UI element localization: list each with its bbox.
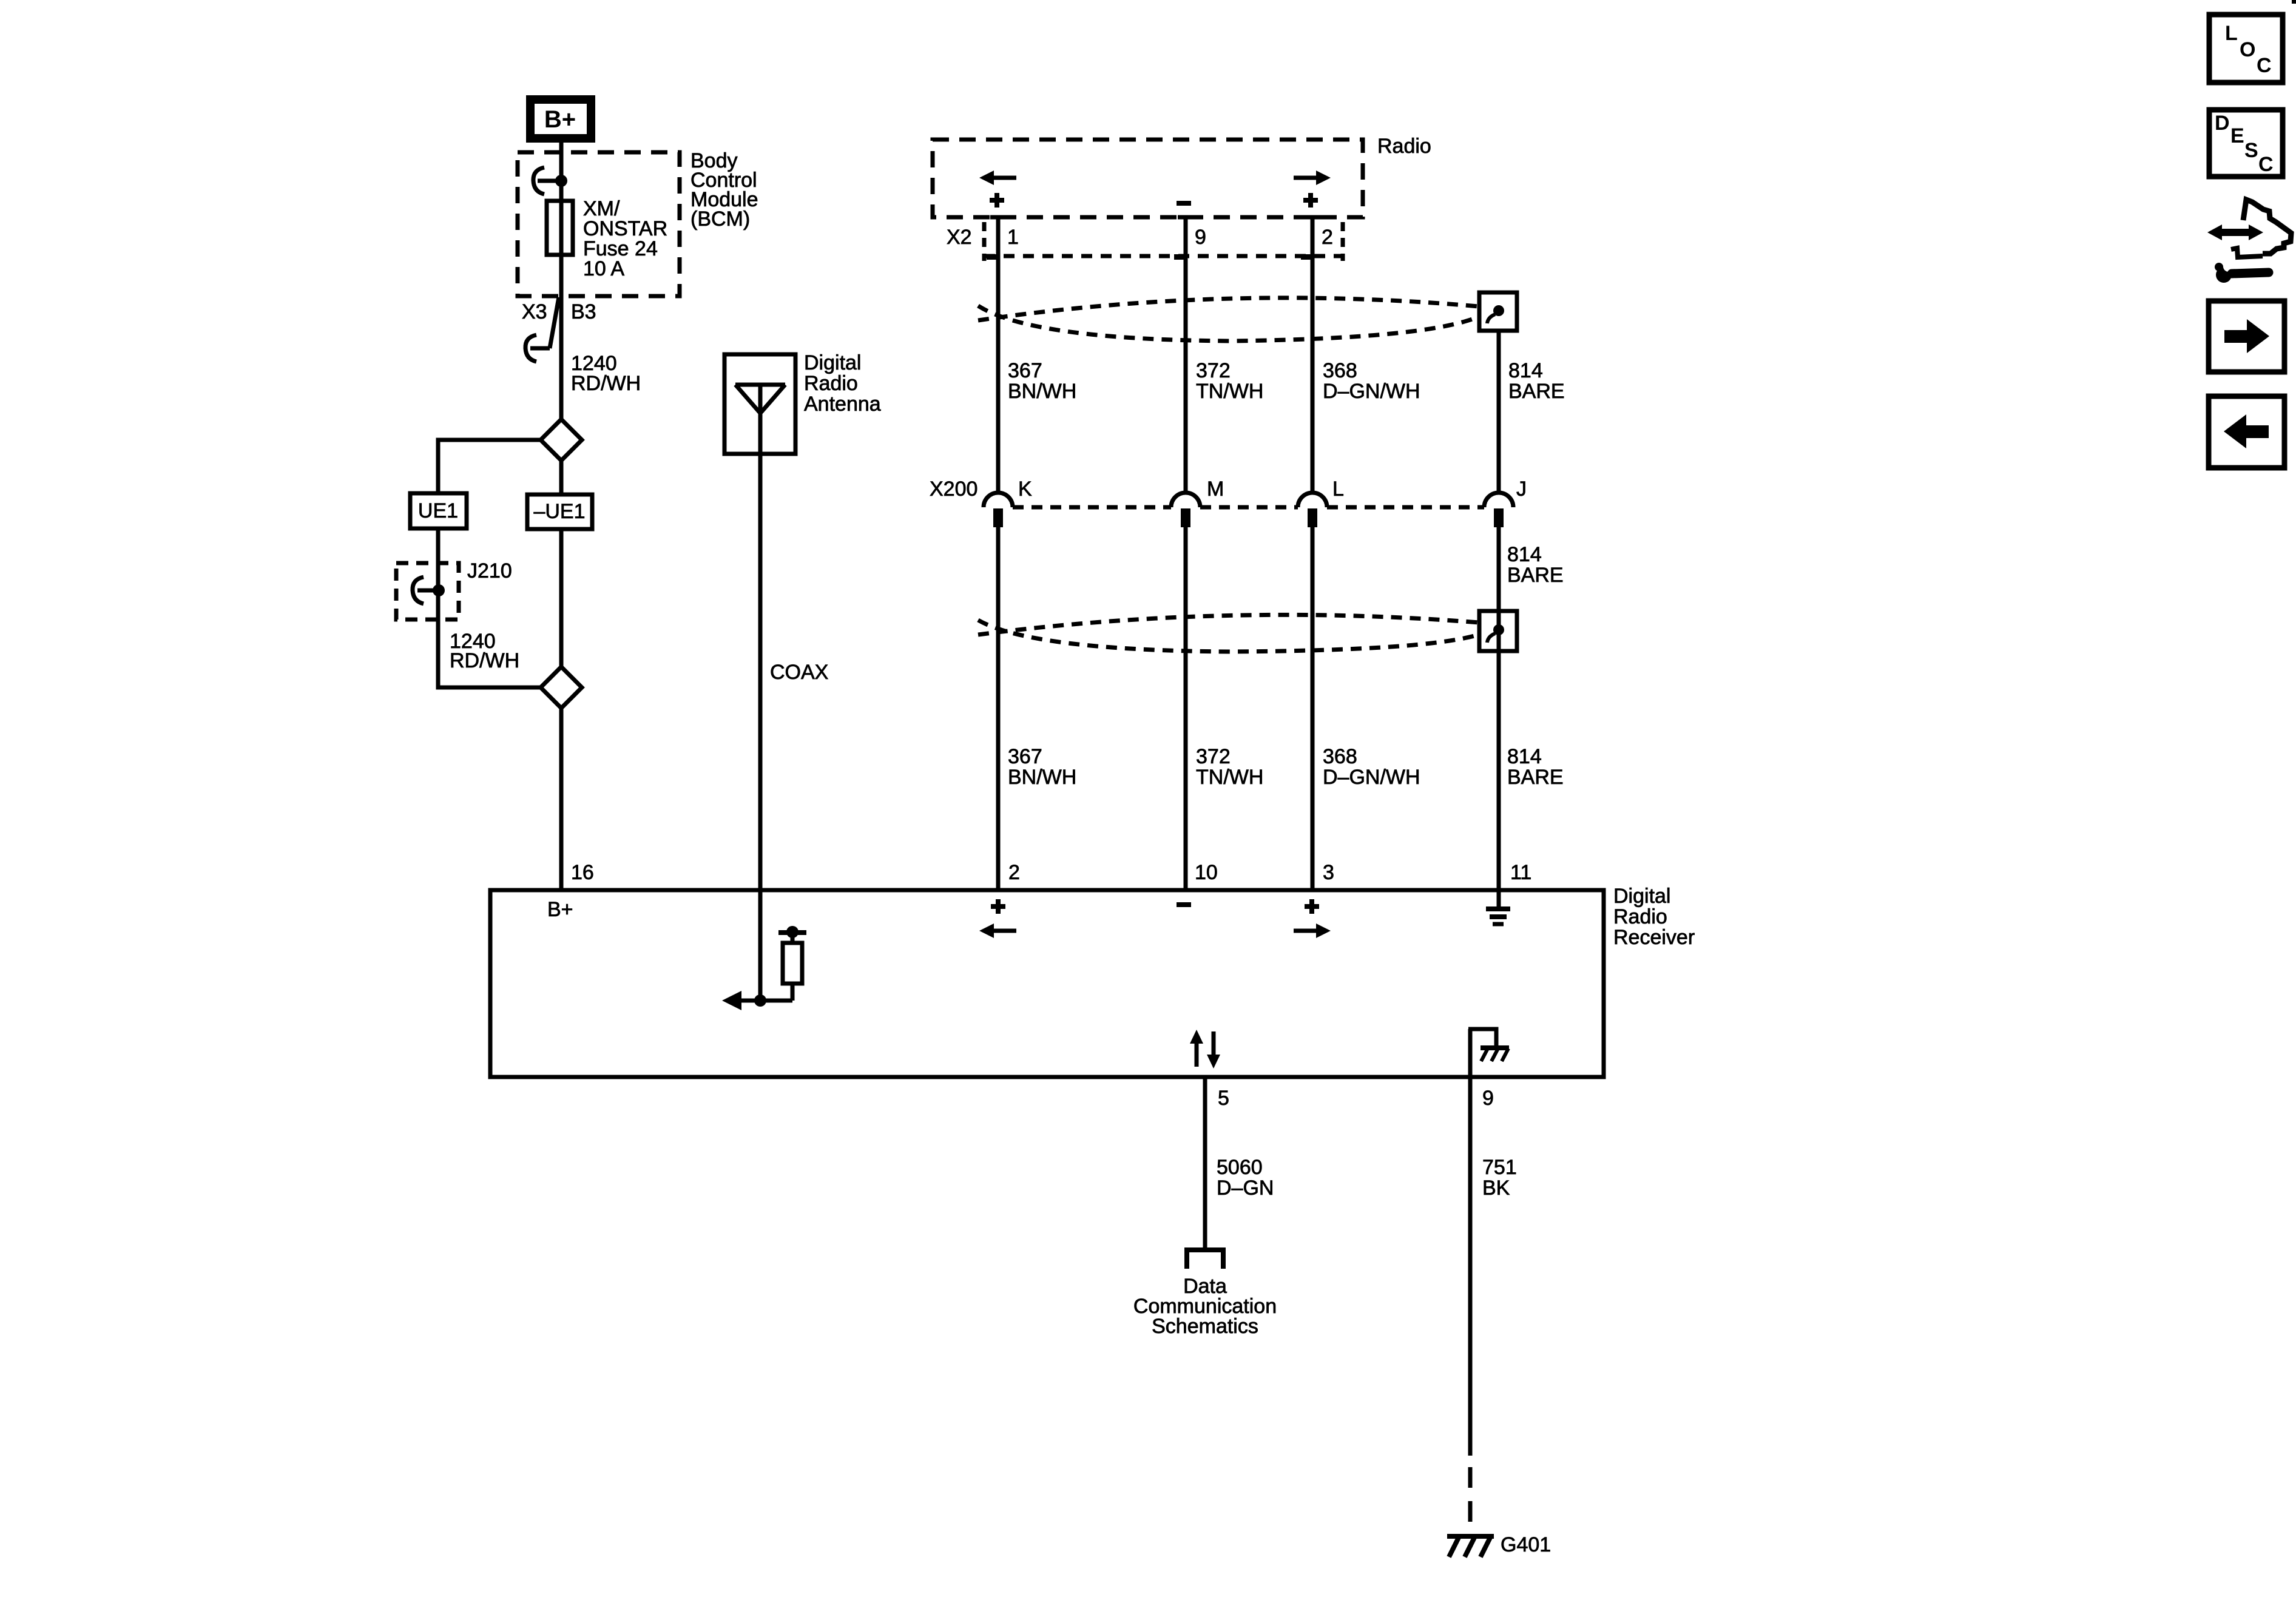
wire UE1 down through J210 xyxy=(438,528,541,687)
shield terminator box (upper) xyxy=(1479,292,1517,331)
-UE1 terminal box xyxy=(527,495,592,529)
svg-text:K: K xyxy=(1018,478,1032,501)
X2 pin 2 label xyxy=(1322,226,1333,249)
B+ label xyxy=(544,106,576,133)
receiver plus (pin 2) xyxy=(991,899,1005,914)
svg-text:10 A: 10 A xyxy=(583,257,624,280)
sidebar vehicle harness icon xyxy=(2207,200,2291,257)
shield loop (upper) xyxy=(978,298,1479,341)
wire label 372 TN/WH (upper) xyxy=(1196,359,1263,403)
X200 pin L label xyxy=(1332,478,1344,501)
svg-text:1: 1 xyxy=(1007,226,1019,249)
svg-text:814: 814 xyxy=(1507,745,1542,768)
svg-text:G401: G401 xyxy=(1501,1533,1551,1556)
junction node in BCM xyxy=(555,175,567,187)
wire 372 lower segment xyxy=(1184,527,1188,890)
X2 pin ticks xyxy=(987,254,1311,260)
Digital Radio Antenna box xyxy=(724,354,795,454)
receiver pin 10 label xyxy=(1195,861,1218,884)
svg-text:M: M xyxy=(1207,478,1224,501)
splice diamond (upper) xyxy=(541,419,582,461)
receiver pin 2 label xyxy=(1008,861,1020,884)
svg-text:367: 367 xyxy=(1008,359,1042,382)
receiver data up/down arrows (pin 5) xyxy=(1190,1030,1220,1068)
receiver right arrow (pin 3) xyxy=(1294,923,1331,938)
radio minus sign xyxy=(1177,201,1191,206)
G401 label xyxy=(1501,1533,1551,1556)
drain wire 814 lower segment xyxy=(1497,527,1501,890)
svg-text:L: L xyxy=(2225,22,2238,45)
wire -UE1 down to splice diamond lower xyxy=(559,529,564,667)
X2 pin 1 label xyxy=(1007,226,1019,249)
svg-text:C: C xyxy=(2258,153,2274,176)
svg-text:TN/WH: TN/WH xyxy=(1196,380,1263,403)
svg-text:Radio: Radio xyxy=(1377,135,1431,158)
svg-text:X200: X200 xyxy=(930,478,977,501)
svg-text:BARE: BARE xyxy=(1507,564,1564,587)
svg-text:D–GN: D–GN xyxy=(1217,1176,1274,1200)
Digital Radio Antenna label xyxy=(804,351,881,416)
X200 arc pin K xyxy=(984,493,1013,527)
svg-text:5060: 5060 xyxy=(1217,1156,1263,1179)
svg-text:372: 372 xyxy=(1196,359,1231,382)
wire label 1240 RD/WH (upper) xyxy=(571,352,641,395)
connector X200 label xyxy=(930,478,977,501)
sidebar LOC icon box xyxy=(2209,15,2283,83)
coax wire antenna to receiver xyxy=(758,454,763,890)
wire label 372 TN/WH (lower) xyxy=(1196,745,1263,789)
receiver coax internal wire xyxy=(722,890,792,1010)
wire 751 BK xyxy=(1468,1077,1473,1536)
X2 pin 9 label xyxy=(1195,226,1206,249)
svg-text:B+: B+ xyxy=(547,898,573,921)
wire label 367 BN/WH (lower) xyxy=(1008,745,1076,789)
svg-text:B3: B3 xyxy=(571,300,596,323)
connector X2 bracket xyxy=(984,222,1343,261)
svg-text:J: J xyxy=(1516,478,1527,501)
svg-text:751: 751 xyxy=(1482,1156,1517,1179)
X200 arc pin M xyxy=(1171,493,1200,527)
svg-text:Radio: Radio xyxy=(1613,905,1667,928)
-UE1 label xyxy=(533,500,585,523)
svg-text:3: 3 xyxy=(1323,861,1334,884)
sidebar DESC icon box xyxy=(2209,110,2283,177)
svg-text:X3: X3 xyxy=(522,300,547,323)
page corner mark xyxy=(2292,0,2296,4)
svg-text:Digital: Digital xyxy=(804,351,861,374)
svg-text:BN/WH: BN/WH xyxy=(1008,380,1076,403)
svg-text:–UE1: –UE1 xyxy=(533,500,585,523)
wire 367 lower segment xyxy=(996,527,1001,890)
Digital Radio Receiver label xyxy=(1613,885,1695,949)
receiver pin 16 label xyxy=(571,861,594,884)
X200 pin M label xyxy=(1207,478,1224,501)
svg-text:RD/WH: RD/WH xyxy=(571,372,641,395)
wire splice to UE1 branch xyxy=(438,440,541,493)
J210 splice pack dashed box xyxy=(396,563,459,619)
wire label 1240 RD/WH (lower) xyxy=(450,630,519,672)
B+ power symbol box xyxy=(530,100,591,138)
svg-text:S: S xyxy=(2244,139,2258,162)
svg-text:D: D xyxy=(2215,112,2230,135)
wire label 367 BN/WH (upper) xyxy=(1008,359,1076,403)
svg-text:Radio: Radio xyxy=(804,372,858,395)
shield loop (lower) xyxy=(978,615,1479,652)
radio plus sign (left) xyxy=(990,193,1004,208)
wire label 814 BARE (upper) xyxy=(1508,359,1565,403)
svg-text:UE1: UE1 xyxy=(418,499,458,522)
receiver plus (pin 3) xyxy=(1305,899,1319,914)
wire label 5060 D-GN xyxy=(1217,1156,1274,1200)
receiver minus (pin 10) xyxy=(1177,902,1191,907)
svg-text:Receiver: Receiver xyxy=(1613,926,1695,949)
J210 connector hook and node xyxy=(413,577,445,604)
sidebar back arrow box xyxy=(2209,396,2284,468)
wire 1240 RD/WH from X3 to splice xyxy=(559,296,564,419)
receiver pin 9 label xyxy=(1482,1087,1494,1110)
X2 label xyxy=(947,226,972,249)
sidebar next arrow box xyxy=(2209,301,2284,372)
B3 label xyxy=(571,300,596,323)
receiver B+ label xyxy=(547,898,573,921)
svg-text:814: 814 xyxy=(1507,543,1542,566)
svg-text:9: 9 xyxy=(1482,1087,1494,1110)
wire label 814 BARE (lower) xyxy=(1507,745,1564,789)
radio plus sign (right) xyxy=(1303,193,1318,208)
UE1 fuse block terminal box xyxy=(410,493,467,528)
wire label 751 BK xyxy=(1482,1156,1517,1200)
X200 pin K label xyxy=(1018,478,1032,501)
svg-text:D–GN/WH: D–GN/WH xyxy=(1323,380,1420,403)
svg-text:2: 2 xyxy=(1008,861,1020,884)
COAX label xyxy=(770,661,828,684)
svg-text:BARE: BARE xyxy=(1508,380,1565,403)
svg-text:J210: J210 xyxy=(467,559,512,582)
svg-text:11: 11 xyxy=(1510,861,1531,884)
receiver pin 3 label xyxy=(1323,861,1334,884)
svg-text:L: L xyxy=(1332,478,1344,501)
X200 pin J label xyxy=(1516,478,1527,501)
wire B+ to BCM fuse to X3 xyxy=(559,138,564,296)
receiver pin 11 label xyxy=(1510,861,1531,884)
svg-text:D–GN/WH: D–GN/WH xyxy=(1323,766,1420,789)
wire splice to receiver pin 16 xyxy=(559,708,564,890)
svg-text:9: 9 xyxy=(1195,226,1206,249)
BCM internal connector hook xyxy=(533,167,559,194)
svg-text:367: 367 xyxy=(1008,745,1042,768)
ground G401 xyxy=(1447,1536,1494,1557)
svg-text:(BCM): (BCM) xyxy=(690,208,750,231)
off-page connector to data schematics xyxy=(1184,1250,1226,1269)
svg-text:BN/WH: BN/WH xyxy=(1008,766,1076,789)
wire label 814 BARE (middle) xyxy=(1507,543,1564,587)
fuse value label xyxy=(583,197,667,280)
sidebar wrench icon xyxy=(2215,261,2269,283)
svg-text:X2: X2 xyxy=(947,226,972,249)
wire 5060 D-GN xyxy=(1203,1077,1207,1248)
J210 label xyxy=(467,559,512,582)
shield terminator box (lower) xyxy=(1479,611,1517,651)
svg-text:16: 16 xyxy=(571,861,594,884)
svg-text:814: 814 xyxy=(1508,359,1543,382)
svg-text:BARE: BARE xyxy=(1507,766,1564,789)
wire 367 BN/WH upper segment xyxy=(996,217,1001,493)
svg-text:Antenna: Antenna xyxy=(804,393,881,416)
connector X3 / B3 at BCM xyxy=(525,297,559,362)
svg-text:C: C xyxy=(2257,54,2272,77)
fuse XM/ONSTAR Fuse 24 10 A xyxy=(547,201,573,255)
wire 368 lower segment xyxy=(1311,527,1315,890)
svg-text:372: 372 xyxy=(1196,745,1231,768)
radio left output arrow xyxy=(979,170,1016,185)
receiver pin 5 label xyxy=(1218,1087,1229,1110)
BCM name label xyxy=(690,149,758,231)
X200 arc pin L xyxy=(1298,493,1327,527)
receiver left arrow (pin 2) xyxy=(979,923,1016,938)
antenna symbol xyxy=(735,385,785,454)
drain wire 814 from shield box to X200 xyxy=(1497,331,1501,493)
receiver termination resistor xyxy=(778,926,806,1001)
svg-text:Schematics: Schematics xyxy=(1152,1315,1258,1338)
svg-text:368: 368 xyxy=(1323,359,1357,382)
svg-text:O: O xyxy=(2240,38,2255,61)
Data Communication Schematics label xyxy=(1133,1275,1277,1338)
svg-text:2: 2 xyxy=(1322,226,1333,249)
svg-text:5: 5 xyxy=(1218,1087,1229,1110)
svg-text:B+: B+ xyxy=(544,106,576,133)
receiver chassis ground (pin 9) xyxy=(1468,1029,1509,1077)
svg-text:BK: BK xyxy=(1482,1176,1510,1200)
svg-text:368: 368 xyxy=(1323,745,1357,768)
svg-text:E: E xyxy=(2230,124,2244,147)
svg-text:COAX: COAX xyxy=(770,661,828,684)
svg-text:TN/WH: TN/WH xyxy=(1196,766,1263,789)
svg-text:RD/WH: RD/WH xyxy=(450,649,519,672)
wire splice to -UE1 xyxy=(559,461,564,495)
Body Control Module (BCM) dashed box xyxy=(518,152,680,296)
splice diamond (lower) xyxy=(541,667,582,708)
radio right output arrow xyxy=(1294,170,1331,185)
Radio dashed box xyxy=(933,140,1363,217)
wire label 368 D&#8211;GN/WH (upper) xyxy=(1323,359,1420,403)
radio box bottom edge caps at wire exits xyxy=(990,215,1320,220)
X3 label xyxy=(522,300,547,323)
X200 dashed connector line xyxy=(1013,505,1484,510)
Digital Radio Receiver box xyxy=(490,890,1604,1077)
svg-text:10: 10 xyxy=(1195,861,1218,884)
UE1 label xyxy=(418,499,458,522)
wire 368 D&#8211;GN/WH upper segment xyxy=(1311,217,1315,493)
Radio label xyxy=(1377,135,1431,158)
wire label 368 D&#8211;GN/WH (lower) xyxy=(1323,745,1420,789)
wire 372 TN/WH upper segment xyxy=(1184,217,1188,493)
svg-text:Digital: Digital xyxy=(1613,885,1670,908)
receiver earth ground (pin 11) xyxy=(1486,890,1510,924)
X200 arc pin J xyxy=(1484,493,1513,527)
